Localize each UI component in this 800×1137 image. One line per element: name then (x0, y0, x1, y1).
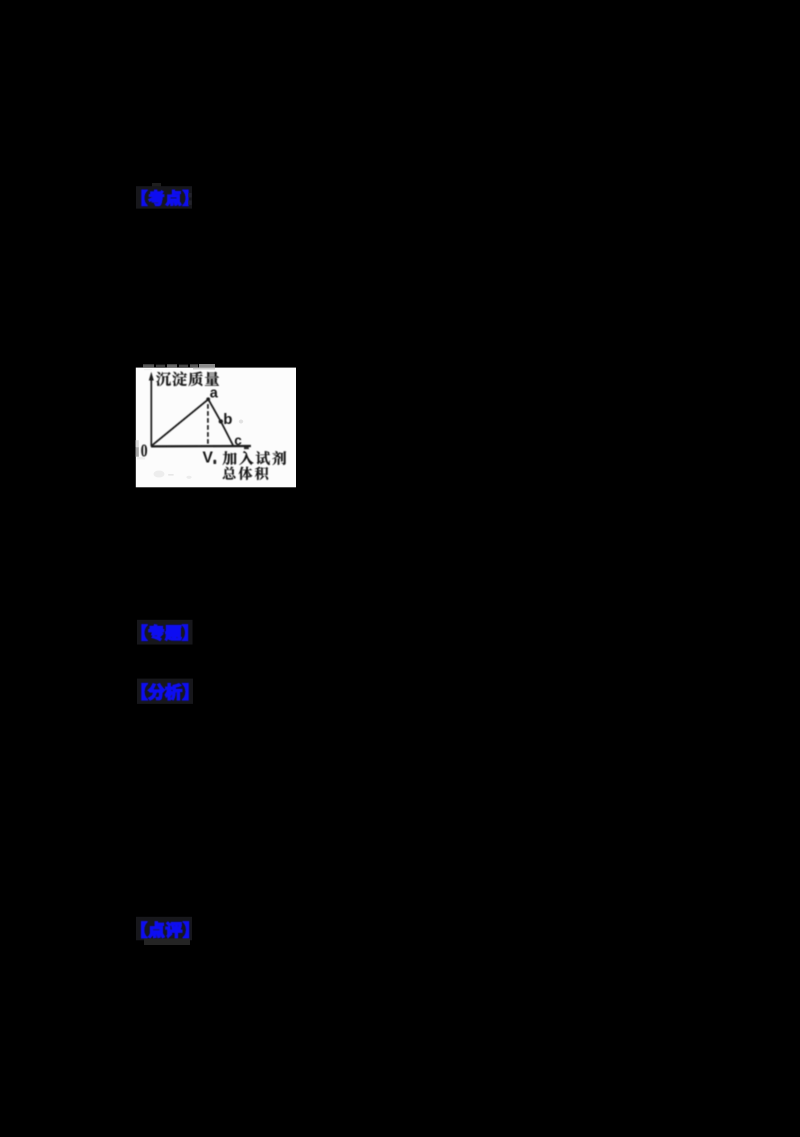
svg-text:a: a (210, 386, 219, 402)
svg-text:b: b (223, 411, 232, 428)
tick blob below x-axis right end (244, 447, 249, 449)
halo blue label 【分析】 (137, 679, 193, 704)
x-axis label line2 总体积 (223, 467, 268, 480)
curve falling segment b-c (221, 421, 233, 445)
point b (219, 419, 223, 423)
halo blue label 【专题】 (137, 620, 193, 645)
gray smudge left edge (136, 440, 139, 447)
halo blue label 【考点】 (136, 186, 192, 208)
scanned chart image: white background (136, 368, 296, 488)
y-axis label 沉淀质量 (156, 371, 219, 386)
origin label 0 (141, 442, 148, 461)
dashed vertical line at V1 (207, 404, 209, 444)
blue label 【专题】 (142, 625, 187, 641)
blue label 【考点】 (142, 190, 188, 205)
svg-text:V: V (203, 449, 214, 466)
curve rising segment (152, 399, 209, 446)
svg-text:c: c (234, 433, 242, 448)
scan artifacts top edge (143, 364, 154, 367)
curve falling segment a-b (208, 399, 221, 421)
blue label 【分析】 (142, 684, 188, 700)
y-axis arrowhead (149, 372, 154, 381)
blue label 【点评】 (142, 922, 189, 938)
x-axis (151, 445, 251, 448)
faint scan noise flecks (154, 471, 165, 478)
halo blue label 【点评】 (136, 917, 192, 941)
point a (206, 397, 210, 401)
y-axis (150, 376, 152, 446)
x-axis label 加入试剂 (223, 451, 287, 465)
